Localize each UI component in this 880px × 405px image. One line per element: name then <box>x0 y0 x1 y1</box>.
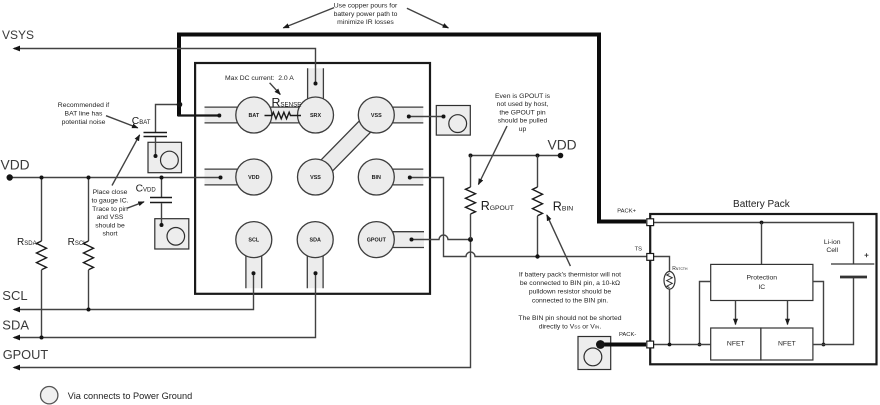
thermistor RNTC <box>654 257 688 345</box>
resistor RGPOUT <box>466 156 476 240</box>
pad BAT <box>236 97 272 133</box>
wire GPOUT net <box>13 240 471 371</box>
arrow even is GPOUT note <box>478 126 507 185</box>
svg-text:Trace to pin: Trace to pin <box>92 206 128 213</box>
wire SCL net <box>13 273 254 312</box>
terminal TS <box>635 247 654 261</box>
resistor RBIN <box>533 156 543 257</box>
pad GPOUT <box>358 222 394 258</box>
svg-text:VSS: VSS <box>310 175 321 181</box>
arrow copper pours left <box>283 8 334 28</box>
trace SDA pin (down stub) <box>307 240 323 289</box>
battery pack box <box>650 214 876 364</box>
svg-text:PACK+: PACK+ <box>617 208 636 214</box>
node PACK- via endpoint <box>596 340 605 349</box>
node CVDD ground via <box>160 223 164 227</box>
resistor RSCL <box>84 178 94 310</box>
trace VSS top right pin <box>376 107 423 123</box>
terminal PACK+ <box>617 208 653 225</box>
pad VSS center <box>298 159 334 195</box>
svg-text:Battery Pack: Battery Pack <box>733 199 791 210</box>
node VSS via <box>442 115 446 119</box>
legend via symbol <box>41 387 193 404</box>
svg-text:to gauge IC.: to gauge IC. <box>91 198 128 205</box>
thick battery power wire top <box>179 35 599 222</box>
wire protection IC right sense <box>813 282 824 345</box>
trace BAT pin (left stub) <box>205 107 255 123</box>
pad VSS top right <box>358 97 394 133</box>
wire protection IC left sense <box>700 282 711 345</box>
arrow max DC current <box>270 83 281 95</box>
svg-text:VSYS: VSYS <box>2 28 34 42</box>
node protection IC top tap <box>760 221 764 225</box>
note: if battery pack thermistor <box>519 272 621 305</box>
wire VDD net <box>10 177 221 179</box>
node left sense <box>698 343 702 347</box>
node thermistor ground <box>668 343 672 347</box>
svg-text:GPOUT: GPOUT <box>3 347 49 362</box>
node BIN pad tap <box>408 176 412 180</box>
svg-text:should be pulled: should be pulled <box>498 118 548 125</box>
wire BIN pin to thermistor line <box>410 178 647 257</box>
trace SRX pin (up stub) <box>308 68 324 118</box>
node SRX sense tap <box>314 82 318 86</box>
pad SDA <box>297 222 333 258</box>
arrow protection IC to NFET1 gate <box>735 301 737 325</box>
arrow place close up to CBAT <box>112 135 140 186</box>
svg-text:Use copper pours for: Use copper pours for <box>334 3 398 10</box>
svg-text:not used by host,: not used by host, <box>497 101 549 108</box>
note: recommended if BAT line <box>58 102 109 126</box>
arrow place close to CVDD <box>127 202 144 208</box>
capacitor CVDD <box>150 178 172 226</box>
node GPOUT pad tap <box>410 238 414 242</box>
wire VSS pin to ground via <box>409 116 444 118</box>
svg-text:Recommended if: Recommended if <box>58 102 109 109</box>
trace GPOUT pin (right stub) <box>376 232 424 248</box>
svg-text:VSS: VSS <box>371 113 382 119</box>
thick wire PACK- to power ground via <box>601 343 647 347</box>
gauge IC land pattern box U1 <box>195 63 430 294</box>
trace BIN pin (right stub) <box>376 169 423 185</box>
wire CBAT to battery line <box>156 105 180 133</box>
wire pack top rail <box>654 223 854 265</box>
svg-text:connected to the BIN pin.: connected to the BIN pin. <box>532 297 608 304</box>
note: even is GPOUT <box>495 93 551 133</box>
pad BIN <box>358 159 394 195</box>
svg-text:SDA: SDA <box>310 238 321 244</box>
svg-text:VDD: VDD <box>548 138 577 153</box>
node RSDA to SDA <box>40 336 44 340</box>
node RSDA tap <box>40 176 44 180</box>
svg-text:VDD: VDD <box>1 157 30 172</box>
wire VSYS net <box>13 46 316 84</box>
svg-text:minimize IR losses: minimize IR losses <box>337 19 394 26</box>
pad VDD <box>236 159 272 195</box>
arrow copper pours right <box>407 8 449 28</box>
node SCL pad tap <box>252 271 256 275</box>
svg-text:up: up <box>519 126 527 133</box>
node RSCL tap <box>87 176 91 180</box>
svg-text:SDA: SDA <box>2 318 29 333</box>
node RSCL to SCL <box>87 308 91 312</box>
node BAT pad tap <box>217 114 221 118</box>
node VDD pad tap <box>219 176 223 180</box>
svg-text:VDD: VDD <box>248 175 259 181</box>
svg-text:The BIN pin should not be shor: The BIN pin should not be shorted <box>518 315 621 322</box>
node VDD pullup terminal <box>558 153 564 159</box>
svg-text:Via connects to Power Ground: Via connects to Power Ground <box>68 391 192 401</box>
trace VSS diagonal pour <box>310 109 382 182</box>
svg-text:pulldown resistor should be: pulldown resistor should be <box>529 289 612 296</box>
note: BIN pin should not be shorted <box>518 315 621 331</box>
svg-text:Place close: Place close <box>93 189 128 196</box>
node CBAT tap on power wire <box>177 102 183 108</box>
svg-text:TS: TS <box>635 247 643 253</box>
wire SDA net <box>13 273 316 340</box>
svg-text:Li-ion: Li-ion <box>824 239 841 246</box>
wire pack bottom rail left <box>654 344 711 346</box>
node right sense <box>822 343 826 347</box>
thick wire PACK+ stub <box>597 220 646 224</box>
via square for VSS pin ground <box>436 106 470 136</box>
node VDD terminal <box>7 174 13 180</box>
svg-text:SCL: SCL <box>2 288 27 303</box>
arrow recommended note <box>106 116 138 128</box>
wire pack bottom rail right <box>813 277 854 345</box>
wire GPOUT pin to pullup <box>412 235 471 240</box>
node RBIN rail tap <box>536 154 540 158</box>
svg-text:BIN: BIN <box>372 175 381 181</box>
trace BAT-SRX bridge <box>250 107 320 123</box>
protection IC box <box>711 264 813 300</box>
svg-text:Even is GPOUT is: Even is GPOUT is <box>495 93 551 100</box>
NFET 1 box <box>711 328 761 360</box>
resistor RSDA <box>37 178 47 338</box>
node GPOUT pullup junction <box>468 237 473 242</box>
svg-text:the GPOUT pin: the GPOUT pin <box>499 109 546 116</box>
trace VDD pin (left stub) <box>205 169 255 185</box>
svg-text:NFET: NFET <box>778 341 796 348</box>
svg-text:short: short <box>102 231 117 238</box>
node RBIN to thermistor line <box>535 254 539 258</box>
svg-text:BAT line has: BAT line has <box>65 111 104 118</box>
resistor RSENSE symbol <box>265 112 302 119</box>
svg-text:If battery pack's thermistor w: If battery pack's thermistor will not <box>519 272 621 279</box>
svg-text:IC: IC <box>758 284 765 291</box>
svg-text:SCL: SCL <box>248 238 259 244</box>
svg-text:battery power path to: battery power path to <box>334 11 398 18</box>
wire pullup VDD rail <box>471 155 561 157</box>
svg-text:BAT: BAT <box>248 113 259 119</box>
svg-text:potential noise: potential noise <box>62 119 106 126</box>
svg-text:Max DC current: 2.0 A: Max DC current: 2.0 A <box>225 75 294 82</box>
svg-text:Cell: Cell <box>826 247 838 254</box>
svg-text:GPOUT: GPOUT <box>367 238 387 244</box>
pad SCL <box>236 222 272 258</box>
svg-text:should be: should be <box>95 222 125 229</box>
wire protection IC supply <box>761 223 763 265</box>
note: place close to gauge IC <box>91 189 128 238</box>
via square for CVDD ground <box>155 219 189 249</box>
svg-text:directly to VSS or VIN.: directly to VSS or VIN. <box>539 324 602 331</box>
arrow protection IC to NFET2 gate <box>787 301 789 325</box>
NFET 2 box <box>761 328 813 360</box>
node CBAT ground via <box>154 154 158 158</box>
wire BAT power stub <box>178 114 221 116</box>
arrow thermistor note to RBIN <box>547 215 571 266</box>
node VSS pad tap <box>407 115 411 119</box>
svg-text:SRX: SRX <box>310 113 321 119</box>
via square for CBAT ground <box>148 142 182 172</box>
node SDA pad tap <box>314 271 318 275</box>
svg-text:and VSS: and VSS <box>97 214 124 221</box>
terminal PACK- <box>619 332 654 348</box>
note: use copper pours <box>334 3 398 27</box>
pad SRX <box>298 97 334 133</box>
svg-text:Protection: Protection <box>746 275 777 282</box>
Li-ion cell <box>824 239 874 277</box>
trace SCL pin (down stub) <box>246 240 262 289</box>
via square for PACK- ground <box>578 337 611 370</box>
svg-text:PACK-: PACK- <box>619 332 636 338</box>
capacitor CBAT <box>144 133 168 157</box>
node CVDD tap <box>160 176 164 180</box>
svg-text:be connected to BIN pin, a 10-: be connected to BIN pin, a 10-kΩ <box>520 280 620 287</box>
svg-text:NFET: NFET <box>727 341 745 348</box>
node rail corner <box>469 154 473 158</box>
